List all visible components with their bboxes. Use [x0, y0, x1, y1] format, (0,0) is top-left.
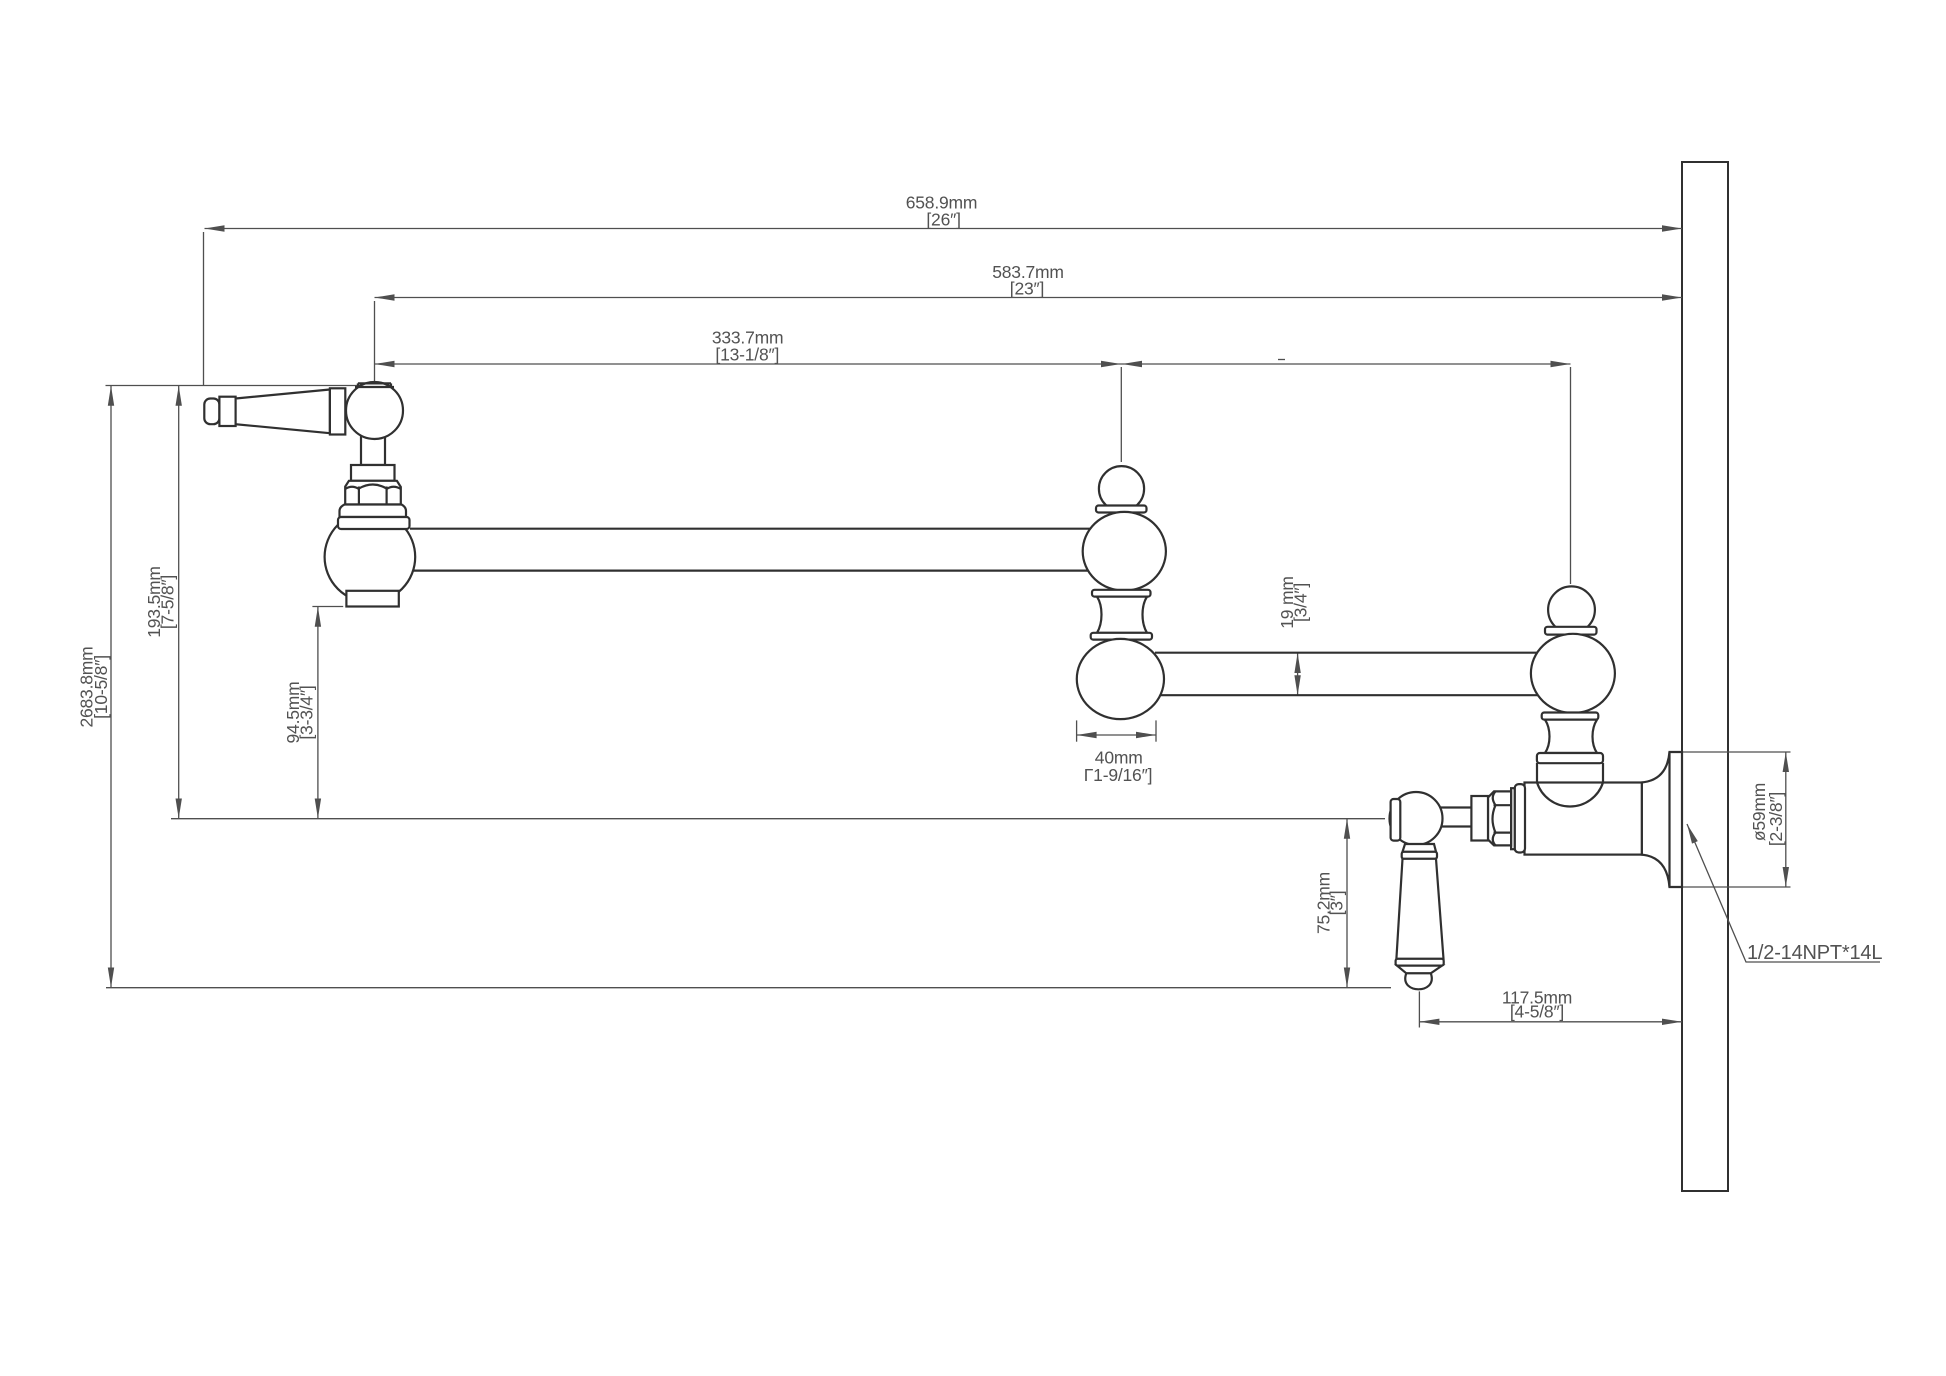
svg-text:[13-1/8″]: [13-1/8″] — [715, 345, 779, 365]
svg-text:[10-5/8″]: [10-5/8″] — [91, 655, 111, 719]
svg-text:[26″]: [26″] — [926, 210, 960, 230]
svg-text:[4-5/8″]: [4-5/8″] — [1510, 1002, 1564, 1022]
svg-text:[3-3/4″]: [3-3/4″] — [297, 685, 317, 739]
svg-text:[23″]: [23″] — [1010, 279, 1044, 299]
svg-text:Γ1-9/16″]: Γ1-9/16″] — [1084, 765, 1153, 785]
svg-text:[7-5/8″]: [7-5/8″] — [158, 575, 178, 629]
svg-text:[3/4″]: [3/4″] — [1291, 583, 1311, 622]
svg-text:1/2-14NPT*14L: 1/2-14NPT*14L — [1747, 942, 1882, 964]
svg-text:[3″]: [3″] — [1327, 891, 1347, 916]
svg-text:[2-3/8″]: [2-3/8″] — [1766, 792, 1786, 846]
